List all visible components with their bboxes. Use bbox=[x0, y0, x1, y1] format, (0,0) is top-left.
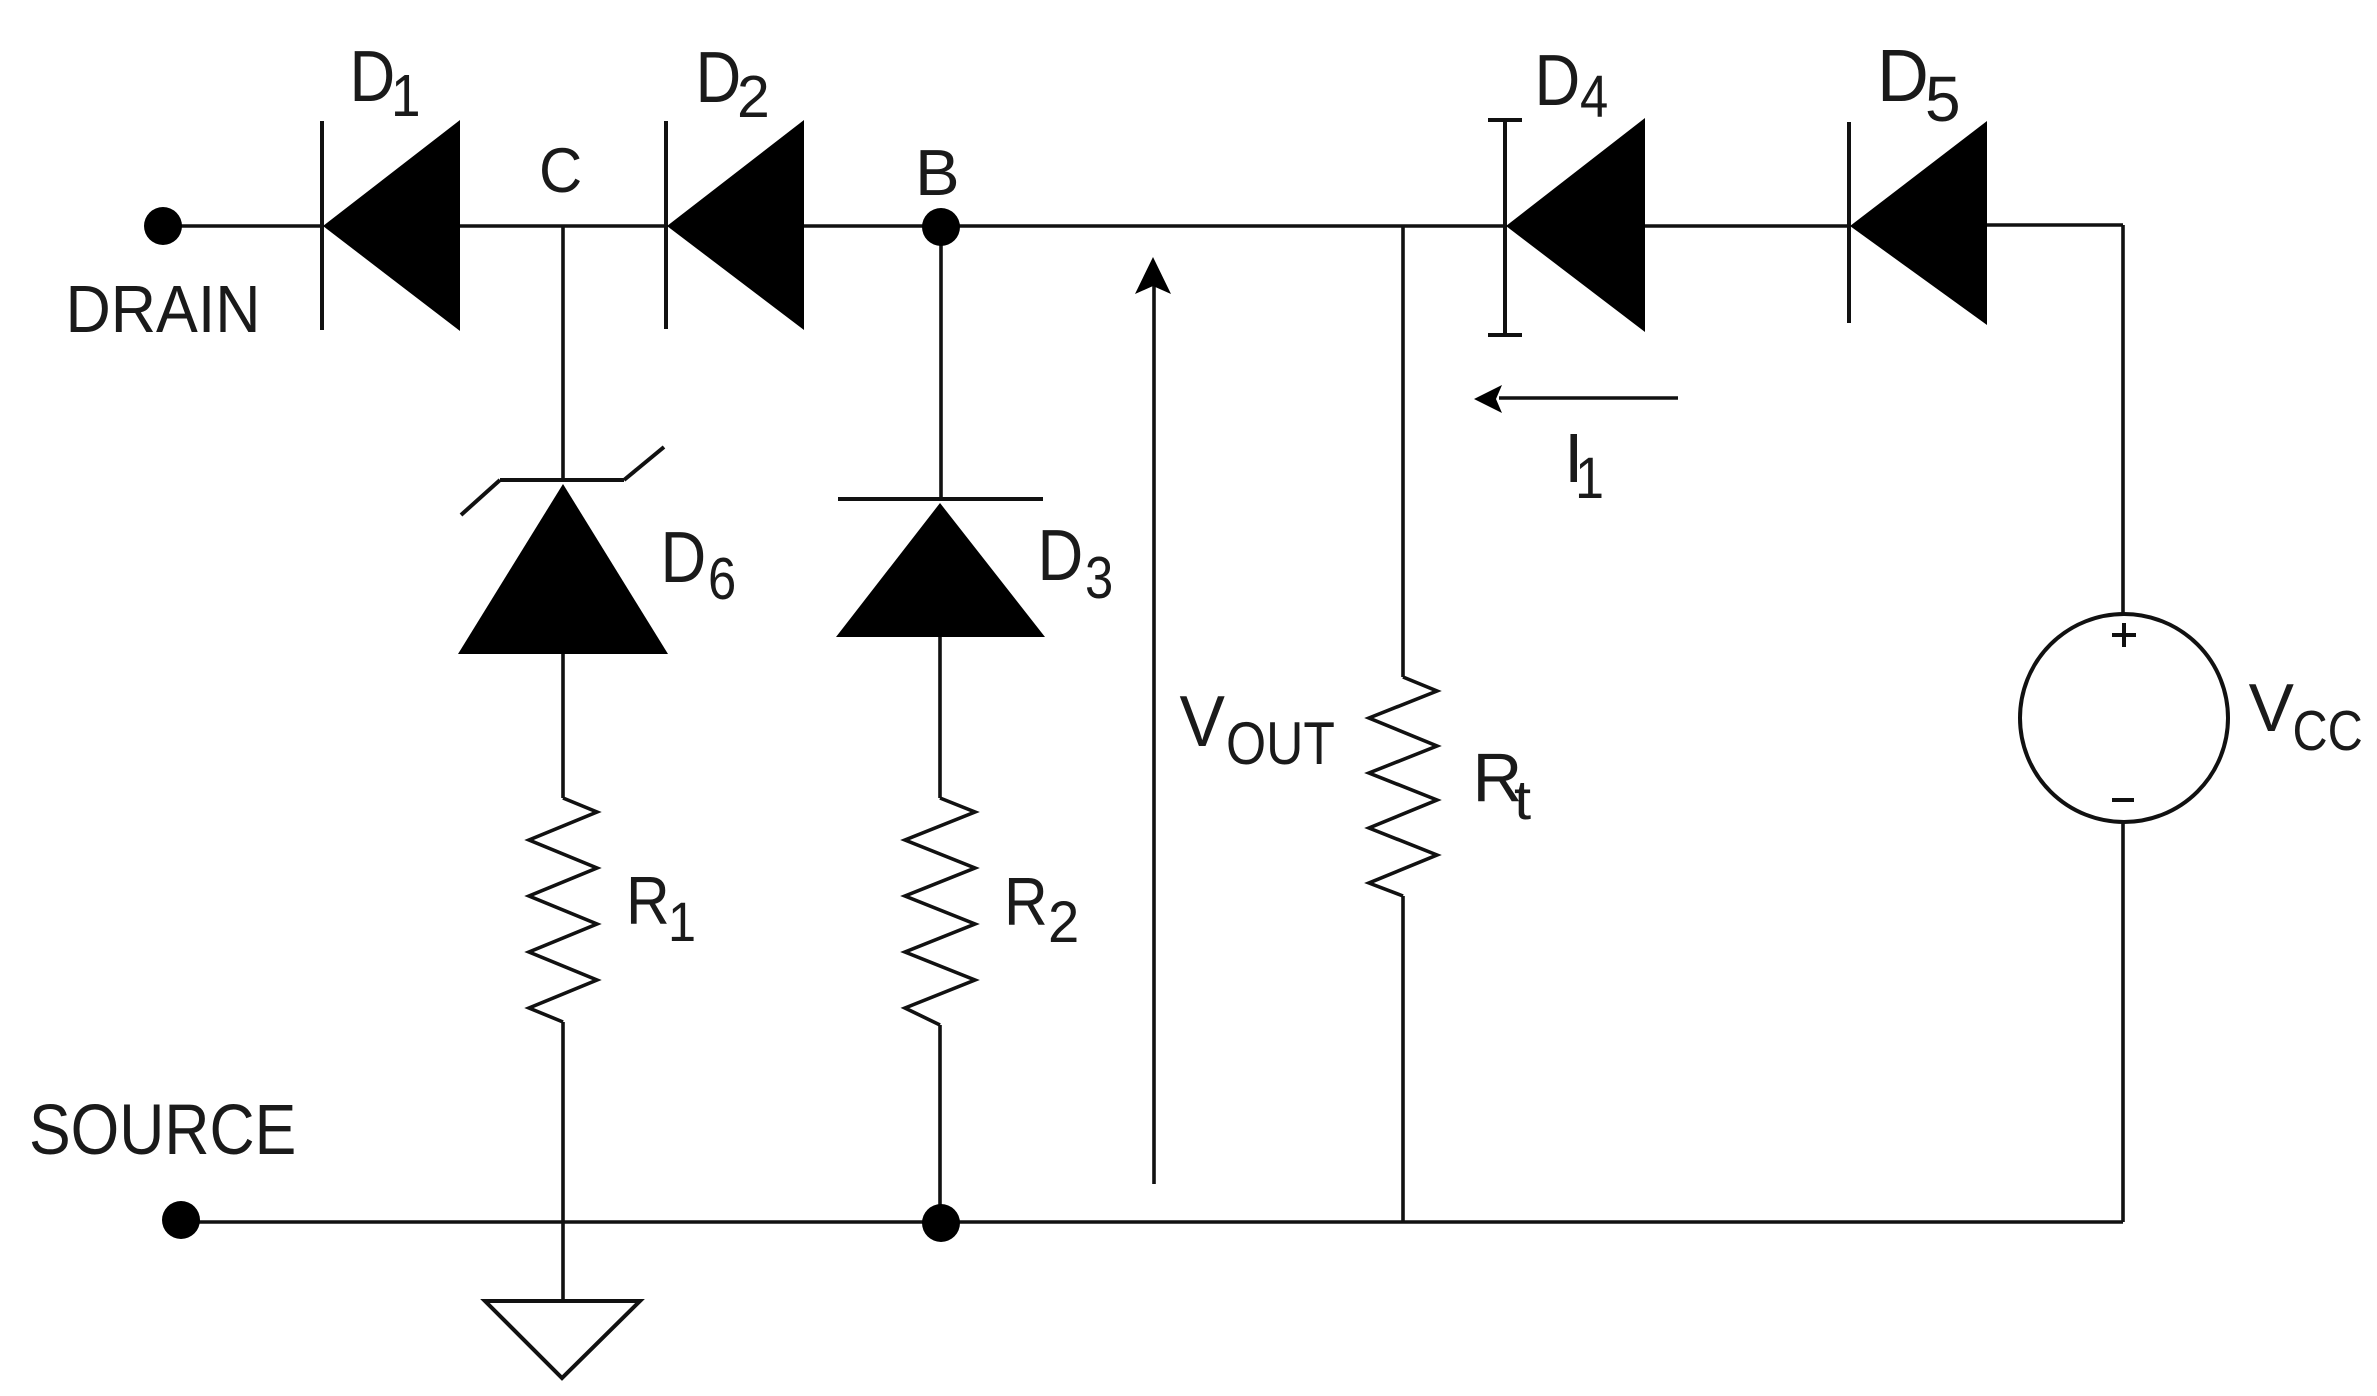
label D1 bbox=[350, 37, 421, 128]
wire D6 to R1 bbox=[561, 654, 565, 798]
diode D5 bbox=[1849, 121, 1987, 325]
terminal dot SOURCE bbox=[162, 1201, 200, 1239]
svg-text:1: 1 bbox=[391, 62, 421, 128]
svg-text:5: 5 bbox=[1925, 63, 1961, 135]
svg-text:D: D bbox=[1535, 41, 1581, 121]
wire bottom bus bbox=[181, 1220, 2123, 1224]
diode D4 bbox=[1488, 118, 1645, 336]
svg-text:DRAIN: DRAIN bbox=[66, 271, 261, 346]
diode D3 bbox=[836, 499, 1045, 637]
svg-text:D: D bbox=[350, 37, 396, 117]
diode D1 bbox=[322, 120, 460, 331]
svg-text:t: t bbox=[1514, 770, 1531, 832]
svg-text:SOURCE: SOURCE bbox=[29, 1090, 296, 1170]
wire Rt top bbox=[1401, 226, 1405, 677]
svg-text:C: C bbox=[539, 136, 582, 207]
svg-text:V: V bbox=[1180, 680, 1226, 761]
svg-text:R: R bbox=[1004, 864, 1048, 940]
resistor R1 bbox=[529, 798, 597, 1022]
resistor R2 bbox=[905, 798, 975, 1025]
label D6 bbox=[661, 518, 737, 612]
label VCC bbox=[2249, 670, 2363, 763]
svg-text:4: 4 bbox=[1580, 63, 1608, 129]
svg-text:D: D bbox=[696, 38, 742, 118]
label D4 bbox=[1535, 41, 1609, 130]
wire D1 to D2 bbox=[460, 224, 666, 228]
node B dot bbox=[922, 208, 960, 246]
wire node C branch down bbox=[561, 226, 565, 480]
arrow VOUT bbox=[1135, 257, 1171, 1184]
wire D3 to R2 bbox=[938, 637, 942, 798]
svg-text:1: 1 bbox=[668, 892, 696, 954]
wire node B branch down bbox=[939, 227, 943, 499]
label D2 bbox=[696, 38, 770, 130]
wire R2 to bottom bus bbox=[938, 1025, 942, 1222]
svg-text:3: 3 bbox=[1085, 544, 1113, 610]
junction dot bottom B column bbox=[922, 1204, 960, 1242]
diode D2 bbox=[666, 120, 804, 330]
voltage source VCC bbox=[2020, 614, 2228, 822]
wire Vcc bottom bbox=[2121, 821, 2125, 1222]
wire D2 to D4 bbox=[804, 224, 1505, 228]
svg-text:1: 1 bbox=[1575, 445, 1604, 510]
svg-text:2: 2 bbox=[737, 64, 770, 130]
svg-text:V: V bbox=[2249, 670, 2295, 746]
label D5 bbox=[1877, 35, 1961, 135]
label D3 bbox=[1038, 516, 1114, 611]
wire D5 to top-right corner bbox=[1987, 223, 2123, 227]
label VOUT bbox=[1180, 680, 1335, 777]
label Rt bbox=[1473, 739, 1532, 831]
svg-text:D: D bbox=[1877, 35, 1929, 117]
svg-text:6: 6 bbox=[708, 545, 736, 611]
wire Rt bottom bbox=[1401, 896, 1405, 1222]
svg-text:R: R bbox=[626, 863, 670, 939]
label R1 bbox=[626, 863, 696, 954]
resistor Rt bbox=[1369, 677, 1437, 896]
wire D4 to D5 bbox=[1645, 224, 1849, 228]
svg-text:D: D bbox=[661, 518, 707, 598]
svg-text:CC: CC bbox=[2293, 699, 2363, 762]
zener diode D6 bbox=[458, 447, 668, 654]
ground bbox=[485, 1301, 640, 1378]
svg-text:OUT: OUT bbox=[1226, 709, 1335, 777]
label I1 bbox=[1564, 419, 1604, 511]
arrow I1 bbox=[1474, 385, 1678, 413]
svg-text:D: D bbox=[1038, 516, 1084, 596]
wire R1 to ground stem bbox=[561, 1022, 565, 1301]
svg-text:B: B bbox=[915, 136, 960, 209]
terminal dot DRAIN bbox=[144, 207, 182, 245]
label R2 bbox=[1004, 864, 1079, 955]
svg-text:2: 2 bbox=[1048, 890, 1079, 955]
wire drain to D1 bbox=[170, 224, 322, 228]
wire Vcc top bbox=[2121, 225, 2125, 616]
